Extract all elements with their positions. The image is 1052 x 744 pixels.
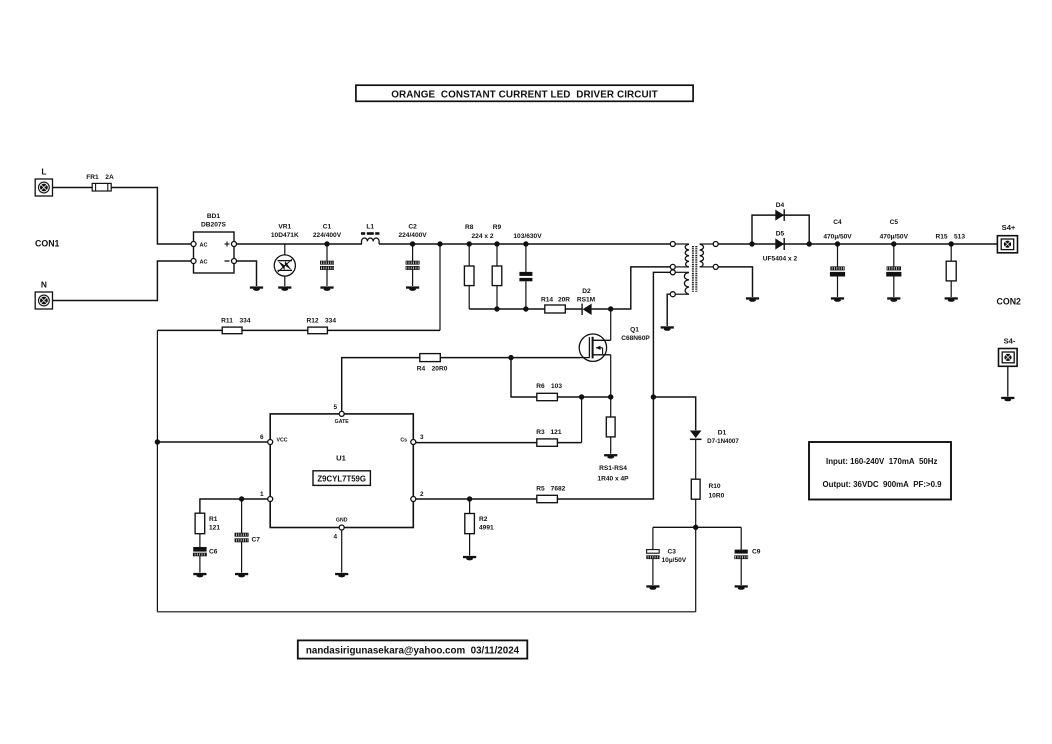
svg-text:R11: R11 — [221, 317, 233, 324]
wire aux node to D1 — [653, 397, 695, 430]
svg-text:R4: R4 — [417, 366, 426, 373]
svg-text:GND: GND — [336, 518, 348, 524]
wire Q1 drain up — [610, 309, 612, 340]
resistor R6 103 — [536, 383, 562, 400]
resistor R1 121 — [195, 513, 220, 534]
capacitor C4 470u/50V — [823, 219, 852, 297]
svg-text:C6: C6 — [209, 549, 218, 556]
svg-text:CON2: CON2 — [997, 297, 1022, 307]
capacitor C3 10u/50V — [647, 527, 687, 585]
svg-text:5: 5 — [334, 404, 338, 411]
svg-text:C5: C5 — [890, 219, 899, 226]
ground (C2) — [406, 286, 419, 288]
current sense resistor RS1-RS4 1R40x4P — [597, 397, 629, 483]
svg-text:C68N60P: C68N60P — [621, 335, 650, 342]
wire pin4 to ground — [341, 530, 343, 573]
svg-text:1R40 x 4P: 1R40 x 4P — [597, 476, 629, 483]
varistor VR1 10D471K — [271, 224, 299, 287]
svg-text:224 x 2: 224 x 2 — [472, 233, 494, 240]
resistor R9 — [492, 224, 502, 309]
ground (RS1-RS4) — [604, 454, 617, 456]
svg-text:FR1: FR1 — [86, 174, 99, 181]
wire R14 to D2 — [565, 308, 582, 310]
wire VCC filter rail — [653, 526, 741, 528]
svg-text:R15: R15 — [935, 234, 947, 241]
transformer T1 primary winding — [670, 242, 689, 270]
svg-text:S4+: S4+ — [1002, 223, 1016, 232]
svg-text:7682: 7682 — [551, 485, 566, 492]
wire pin2 to R5 row — [416, 498, 537, 500]
svg-text:AC: AC — [200, 259, 208, 265]
diode D4 — [775, 202, 784, 221]
node C1 junction — [324, 241, 329, 246]
svg-text:103: 103 — [551, 383, 562, 390]
svg-text:L1: L1 — [366, 224, 374, 231]
wire junction down to R12 row — [439, 244, 441, 330]
wire left vertical to R11 — [157, 329, 222, 331]
svg-text:CON1: CON1 — [35, 239, 60, 249]
svg-text:103/630V: 103/630V — [513, 233, 542, 240]
svg-text:3: 3 — [420, 434, 424, 441]
svg-text:334: 334 — [325, 317, 336, 324]
node R2 tap — [467, 496, 472, 501]
ground (C5) — [887, 297, 900, 299]
resistor R10 10R0 — [691, 479, 724, 527]
svg-text:GATE: GATE — [335, 419, 350, 425]
svg-text:121: 121 — [550, 429, 561, 436]
svg-text:20R: 20R — [558, 296, 570, 303]
svg-text:R12: R12 — [306, 317, 318, 324]
wire R6 to source node — [557, 396, 610, 398]
node D4 branch left — [749, 241, 754, 246]
svg-text:Cs: Cs — [400, 438, 407, 444]
ground (C4) — [831, 297, 844, 299]
node D5 cathode junction — [807, 241, 812, 246]
ground (C1) — [320, 286, 333, 288]
svg-text:L: L — [41, 167, 46, 177]
resistor R3 121 — [536, 429, 562, 446]
wire top rail C1 to L1 — [322, 243, 362, 245]
svg-text:C9: C9 — [752, 549, 761, 556]
svg-text:2: 2 — [420, 491, 424, 498]
terminal S4+ — [997, 223, 1017, 253]
capacitor C5 470u/50V — [880, 219, 909, 297]
wire gate lead — [580, 357, 589, 359]
ground (secondary) — [746, 297, 759, 299]
film capacitor 103/630V — [513, 233, 542, 309]
svg-text:R8: R8 — [465, 224, 474, 231]
wire gate pin up and to R4 — [342, 358, 420, 412]
wire aux top to x653 vertical — [653, 272, 670, 397]
wire R5 to x653 vertical — [557, 397, 653, 499]
ground (aux winding) — [661, 326, 674, 328]
diode D2 RS1M — [577, 288, 596, 315]
ground (C6) — [193, 573, 206, 575]
resistor R8 224x2 — [464, 224, 474, 309]
svg-text:D7-1N4007: D7-1N4007 — [707, 438, 739, 445]
wire R3 vertical — [581, 397, 583, 443]
svg-text:4: 4 — [334, 534, 338, 541]
svg-text:513: 513 — [954, 234, 965, 241]
resistor R11 334 — [221, 317, 251, 333]
wire N terminal to BD1 AC2 — [53, 261, 194, 301]
node C2 junction — [410, 241, 415, 246]
svg-text:AC: AC — [200, 242, 208, 248]
terminal L (CON1) — [35, 167, 52, 197]
email box — [298, 640, 528, 658]
wire secondary bottom to ground — [718, 267, 752, 297]
ground (S4-) — [1001, 397, 1014, 399]
wire D2 to drain node — [592, 308, 611, 310]
wire D4 branch — [752, 215, 809, 244]
resistor R15 513 — [935, 234, 965, 298]
svg-text:4991: 4991 — [479, 525, 494, 532]
resistor R5 7682 — [536, 485, 565, 502]
info box input/output — [809, 442, 951, 500]
wire secondary top to output rail — [718, 243, 997, 245]
capacitor C6 — [193, 534, 218, 573]
wire pin1 row — [200, 499, 268, 513]
wire fuse to BD1 AC1 (down at x=157) — [111, 188, 193, 245]
wire L terminal to fuse — [53, 187, 93, 189]
svg-text:R14: R14 — [541, 296, 553, 303]
svg-text:D2: D2 — [582, 288, 591, 295]
node VCC pin junction — [155, 439, 160, 444]
terminal N (CON1) — [35, 280, 52, 310]
resistor R12 334 — [306, 317, 336, 333]
svg-text:VR1: VR1 — [278, 224, 291, 231]
wire S4- to ground — [1007, 366, 1009, 396]
svg-text:6: 6 — [260, 434, 264, 441]
wire R4 to gate node — [440, 357, 580, 359]
wire drain node to primary bottom — [611, 267, 671, 309]
wire Q1 source down — [610, 355, 612, 397]
snubber bottom rail wire — [469, 308, 545, 310]
svg-text:R3: R3 — [536, 429, 545, 436]
capacitor C7 — [235, 499, 260, 573]
svg-text:D1: D1 — [718, 430, 727, 437]
wire VCC pin to left rail — [157, 441, 267, 443]
resistor R14 20R — [541, 296, 570, 313]
svg-text:R9: R9 — [493, 224, 502, 231]
wire VCC node down to bottom rail — [695, 527, 697, 612]
resistor R2 4991 — [465, 499, 494, 556]
svg-text:470µ/50V: 470µ/50V — [823, 234, 852, 241]
wire aux bottom to ground — [667, 294, 670, 326]
svg-text:224/400V: 224/400V — [313, 232, 342, 239]
svg-text:10D471K: 10D471K — [271, 232, 299, 239]
svg-text:470µ/50V: 470µ/50V — [880, 234, 909, 241]
svg-text:20R0: 20R0 — [432, 366, 448, 373]
svg-text:10R0: 10R0 — [709, 493, 725, 500]
svg-text:C4: C4 — [833, 219, 842, 226]
transformer core — [693, 246, 696, 292]
ground (R15) — [945, 297, 958, 299]
svg-text:R5: R5 — [536, 485, 545, 492]
transformer aux winding — [670, 270, 689, 297]
wire bottom VCC return rail — [157, 611, 695, 613]
ground (R2) — [463, 556, 476, 558]
svg-text:121: 121 — [209, 525, 220, 532]
IC U1 Z9CYL7T59G — [260, 404, 424, 541]
wire top rail to transformer primary — [440, 243, 670, 245]
fuse FR1 2A — [86, 174, 114, 191]
svg-text:RS1-RS4: RS1-RS4 — [599, 465, 627, 472]
svg-text:10µ/50V: 10µ/50V — [662, 557, 687, 564]
svg-text:ORANGE CONSTANT CURRENT LED: ORANGE CONSTANT CURRENT LED DRIVER CIRCU… — [391, 89, 657, 100]
wire R3 to vertical — [557, 442, 581, 444]
svg-text:C1: C1 — [323, 224, 332, 231]
ground (VR1) — [278, 286, 291, 288]
wire BD1 - to ground — [237, 261, 257, 286]
ground (C3) — [646, 585, 659, 587]
ground (C7) — [235, 573, 248, 575]
svg-text:UF5404 x 2: UF5404 x 2 — [763, 255, 798, 262]
resistor R4 20R0 — [417, 354, 448, 373]
ground (BD1 -) — [250, 286, 263, 288]
bridge rectifier BD1 DB207S — [191, 213, 237, 273]
svg-text:Q1: Q1 — [630, 327, 639, 334]
wire BD1 + output to top rail — [237, 243, 323, 245]
wire L1 to C2 junction — [379, 243, 440, 245]
wire pin3 to R3 — [416, 442, 537, 444]
svg-text:R1: R1 — [209, 516, 218, 523]
svg-text:U1: U1 — [336, 454, 346, 463]
svg-text:RS1M: RS1M — [577, 297, 596, 304]
svg-text:N: N — [41, 280, 47, 290]
ground (C9) — [735, 585, 748, 587]
ground (U1 pin4) — [335, 573, 348, 575]
wire startup row R11-R12 — [242, 329, 308, 331]
inductor L1 — [361, 224, 379, 245]
node C7 tap — [239, 496, 244, 501]
terminal S4- — [999, 337, 1018, 367]
wire left vertical rail x157 — [156, 330, 158, 611]
capacitor C2 224/400V — [398, 224, 427, 287]
svg-text:nandasirigunasekara@yahoo.com: nandasirigunasekara@yahoo.com 03/11/2024 — [306, 645, 520, 656]
svg-text:R10: R10 — [709, 483, 721, 490]
node drain junction — [608, 306, 613, 311]
svg-text:DB207S: DB207S — [201, 222, 227, 229]
node VCC filter junction — [693, 525, 698, 530]
svg-text:BD1: BD1 — [207, 213, 221, 220]
wire gate node down to R6 — [511, 358, 537, 397]
svg-text:2A: 2A — [105, 174, 114, 181]
node startup-tap junction — [437, 241, 442, 246]
capacitor C9 — [735, 527, 761, 585]
diode D1 D7-1N4007 — [690, 430, 739, 480]
node aux junction — [651, 394, 656, 399]
svg-text:1: 1 — [260, 491, 264, 498]
svg-text:S4-: S4- — [1004, 337, 1016, 346]
svg-text:Z9CYL7T59G: Z9CYL7T59G — [317, 474, 366, 483]
svg-text:VCC: VCC — [277, 438, 288, 444]
svg-text:Output: 36VDC 900mA PF:>0.9: Output: 36VDC 900mA PF:>0.9 — [823, 480, 943, 489]
MOSFET Q1 C68N60P — [579, 327, 650, 362]
svg-text:R6: R6 — [536, 383, 545, 390]
node gate junction — [508, 355, 513, 360]
svg-text:C2: C2 — [408, 224, 417, 231]
diode D5 — [775, 230, 784, 250]
svg-text:Input: 160-240V 170mA 50Hz: Input: 160-240V 170mA 50Hz — [826, 457, 937, 466]
svg-text:D4: D4 — [776, 202, 785, 209]
title box — [356, 85, 693, 101]
svg-text:224/400V: 224/400V — [398, 232, 427, 239]
svg-text:334: 334 — [239, 317, 250, 324]
svg-text:D5: D5 — [776, 230, 785, 237]
svg-text:R2: R2 — [479, 516, 488, 523]
capacitor C1 224/400V — [313, 224, 342, 287]
svg-text:C3: C3 — [668, 549, 677, 556]
node source junction — [608, 394, 613, 399]
transformer secondary winding — [700, 242, 719, 270]
node R3 tap — [579, 394, 584, 399]
svg-text:C7: C7 — [252, 537, 261, 544]
